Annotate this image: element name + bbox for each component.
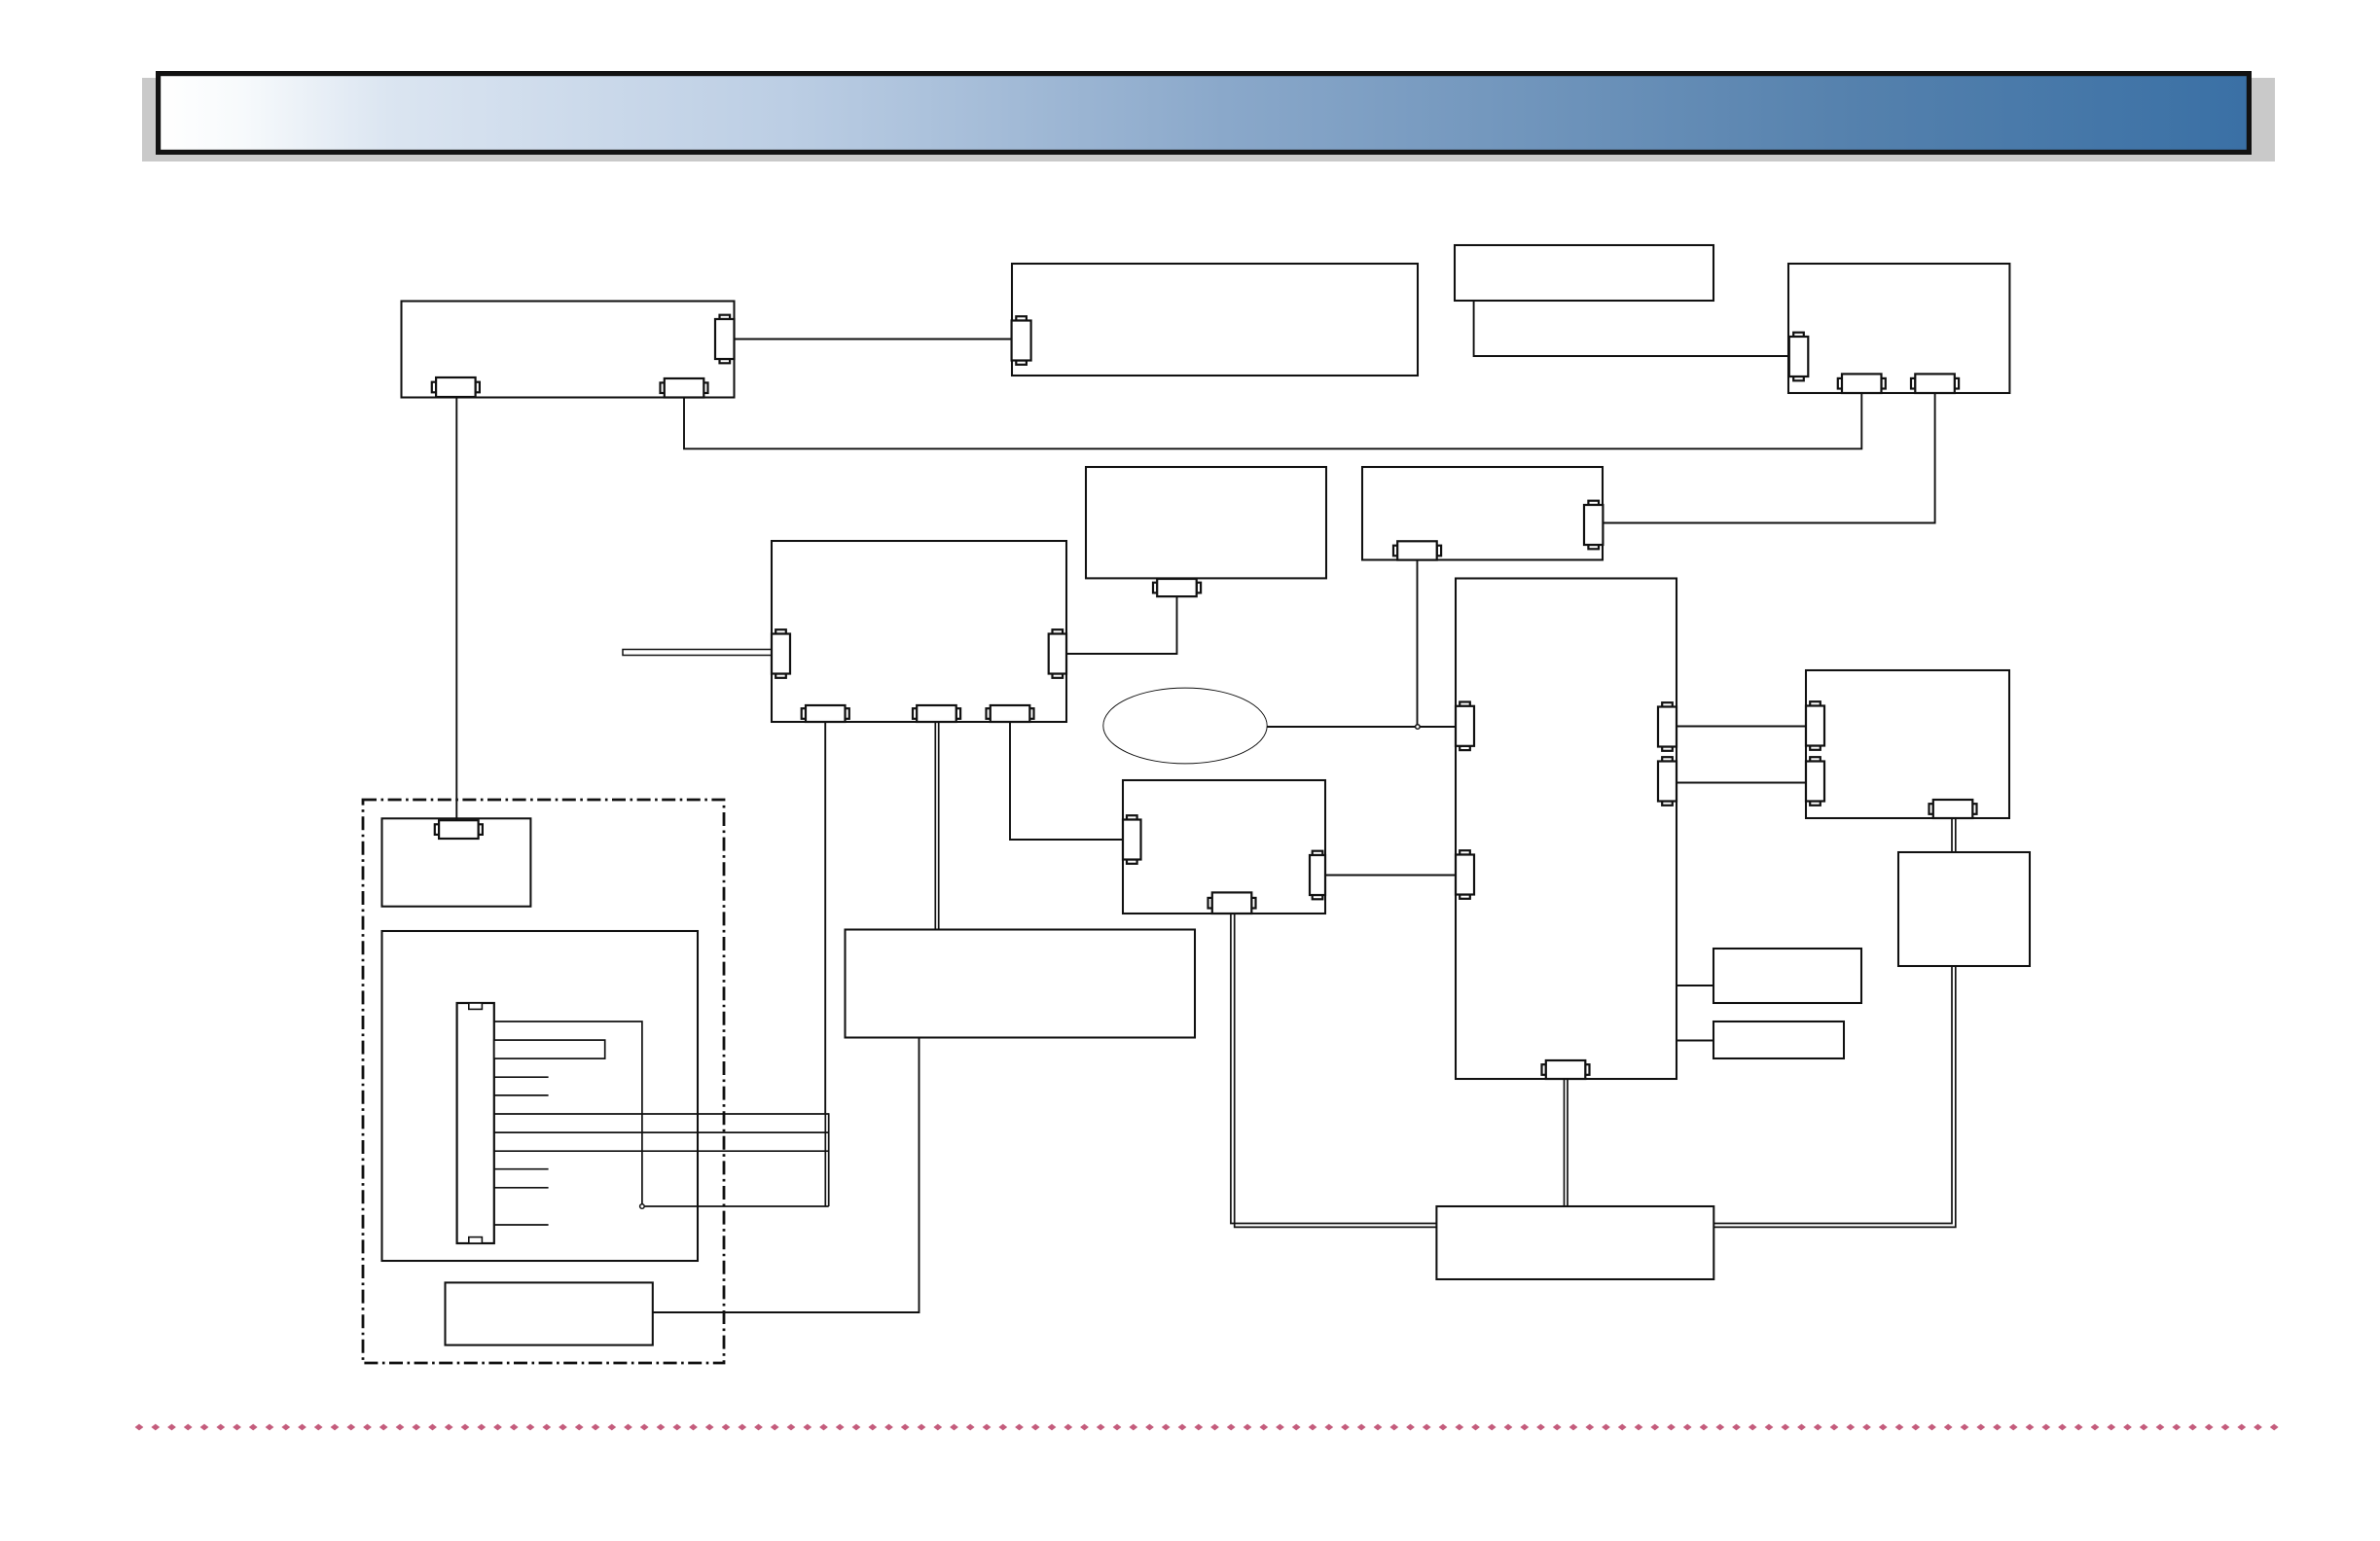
- wire B14 bottom double to B15 (right line): [1955, 818, 1957, 852]
- connector B8 bottom: [1393, 541, 1441, 559]
- box B10 (ignition box in enclosure): [382, 931, 699, 1261]
- pin short 3: [494, 1168, 549, 1170]
- box B11 (tall PCM module): [1456, 579, 1677, 1080]
- pin short 2: [494, 1094, 549, 1096]
- terminal strip in B10: [457, 1003, 494, 1243]
- connector B6 C1: [1838, 374, 1886, 393]
- connector B7 C1: [802, 705, 849, 722]
- wire B8 right to B6 C2: [1603, 393, 1934, 523]
- strip top notch: [469, 1003, 483, 1009]
- connector BA bottom (outside): [1153, 579, 1201, 596]
- box B12 (wide relay box): [846, 930, 1196, 1038]
- pin short 4: [494, 1187, 549, 1189]
- connector B7 C3: [987, 705, 1034, 722]
- connector B7 left: [772, 629, 790, 678]
- wire B11 right lower to B14: [1677, 782, 1806, 784]
- box B5 (small top bar): [1455, 245, 1713, 301]
- wire B15 to B19 right (inner line): [1713, 966, 1952, 1224]
- connector B7 C2: [913, 705, 960, 722]
- fuse rectangle: [494, 1040, 605, 1058]
- connector B14 bottom: [1929, 800, 1977, 818]
- pin L-path with corner: [494, 1021, 642, 1206]
- strip bottom notch: [469, 1237, 483, 1243]
- wire B11 bottom double to B19 (right line): [1567, 1079, 1569, 1206]
- wire B11 bottom double to B19 (left line): [1564, 1079, 1566, 1206]
- box B16 (small wide right 1): [1713, 949, 1861, 1003]
- thin stub bar at B7 left connector: [623, 650, 772, 656]
- connector B11 right upper: [1658, 702, 1677, 751]
- pin long 2: [494, 1131, 829, 1133]
- connector B1 bottom-right: [661, 378, 708, 398]
- box B2 (top module 2): [1012, 264, 1418, 376]
- box B13 (module below ellipse): [1123, 780, 1325, 914]
- pin short 1: [494, 1076, 549, 1078]
- pin short 5: [494, 1224, 549, 1226]
- connector B11 right lower: [1658, 757, 1677, 806]
- connector B13 bottom: [1208, 892, 1256, 914]
- ellipse node: [1103, 688, 1267, 764]
- wire B13 right to B11 left lower: [1325, 875, 1456, 877]
- wire B1 Ca down to B9: [455, 398, 457, 821]
- connector B11 bottom: [1542, 1060, 1590, 1079]
- box B14 (right module): [1806, 670, 2009, 818]
- wire B11 to B16: [1677, 985, 1713, 986]
- connector B6 C2: [1911, 374, 1959, 393]
- pin junction circle: [640, 1204, 645, 1209]
- connector B7 right: [1049, 629, 1066, 678]
- box B18 (bottom box in enclosure): [446, 1282, 653, 1344]
- connector B14 left upper: [1806, 701, 1824, 750]
- box B6 (top right module): [1788, 264, 2009, 393]
- wire BA bottom to B7 right: [1066, 596, 1177, 654]
- wire B13 bottom to B19 left (inner line): [1231, 914, 1437, 1224]
- wire B1 Cb to B6 C1 (long): [684, 393, 1861, 448]
- wire B11 right upper to B14: [1677, 726, 1806, 728]
- connector B13 left: [1123, 815, 1141, 864]
- wire B1 right to B2 left: [735, 339, 1012, 340]
- box B15 (small square right): [1898, 852, 2030, 966]
- connector B11 left upper: [1456, 702, 1474, 751]
- wire B14 bottom double to B15 (left line): [1951, 818, 1953, 852]
- pin long 1: [494, 1113, 829, 1115]
- dash-dot enclosure border: [363, 800, 724, 1363]
- banner shadow: [142, 78, 2275, 161]
- connector B2 left: [1012, 316, 1031, 365]
- pink dotted divider line: [135, 1424, 2279, 1431]
- connector B14 left lower: [1806, 757, 1824, 806]
- wire B7 C2 double left: [934, 722, 936, 930]
- box B1 (top left module): [402, 302, 735, 398]
- box BA (mid small module left): [1086, 467, 1326, 578]
- connector B6 left: [1789, 333, 1809, 381]
- box B19 (bottom junction box): [1436, 1206, 1713, 1279]
- connector B13 right: [1310, 851, 1325, 900]
- box B7 (center ECM module): [772, 541, 1066, 722]
- junction node circle: [1416, 725, 1421, 730]
- wire B7 C2 double right: [938, 722, 940, 930]
- banner bar: [159, 74, 2250, 153]
- wire ellipse to B11 left upper: [1267, 726, 1456, 728]
- wire B15 to B19 right (outer line): [1713, 966, 1956, 1227]
- box B17 (small wide right 2): [1713, 1021, 1844, 1058]
- connector B1 bottom-left: [432, 377, 480, 397]
- box B8 (mid small module right): [1362, 467, 1603, 560]
- cable bus pair (left line): [824, 1113, 826, 1206]
- pin junction line: [642, 1205, 829, 1207]
- wire B5 to B6 left conn: [1474, 301, 1789, 356]
- connector B1 right: [715, 315, 735, 364]
- wire B18 to B12 bottom: [653, 1038, 920, 1313]
- pin long 3: [494, 1150, 829, 1152]
- connector B9 top: [435, 820, 483, 839]
- connector B11 left lower: [1456, 850, 1474, 899]
- connector B8 right: [1584, 501, 1603, 550]
- wire B13 bottom to B19 left (outer line): [1235, 914, 1437, 1227]
- cable bus pair (right line): [828, 1113, 830, 1206]
- wire B8 bottom conn down to junction: [1417, 560, 1419, 727]
- wire B7 C1 down (cable riser): [824, 722, 826, 1113]
- wire B7 C3 to B13 left: [1010, 722, 1123, 840]
- wire B11 to B17: [1677, 1040, 1713, 1042]
- box B9 (small box in enclosure): [382, 818, 531, 906]
